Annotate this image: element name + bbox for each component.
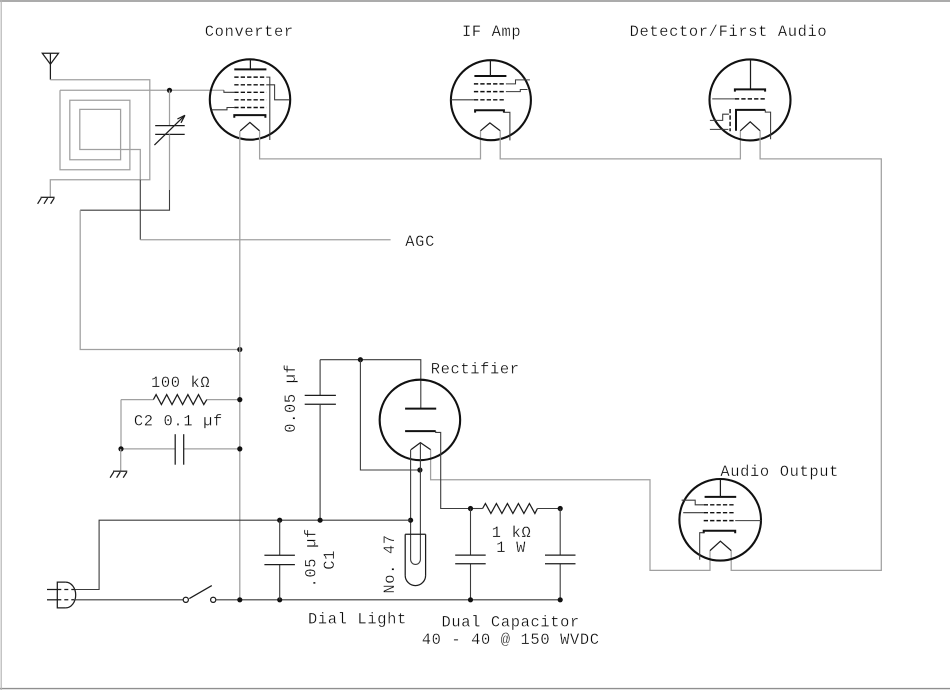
- node B- bus bottom: [237, 597, 242, 602]
- heater V2: [481, 123, 501, 131]
- capacitor C2: [175, 434, 184, 465]
- tube envelope V1: [210, 59, 290, 139]
- cathode lead right V3: [765, 110, 770, 139]
- grid 3 row V1: [234, 91, 266, 93]
- svg-text:Converter: Converter: [205, 23, 294, 41]
- grid stub 1 left V5: [682, 500, 704, 505]
- internal shield lead right V1: [266, 77, 269, 140]
- wire rectifier heater left leg / lamp filament left: [410, 450, 412, 560]
- wire rectifier plate line: [320, 360, 421, 409]
- diode stub 2 left V3: [710, 128, 729, 130]
- tube envelope V5: [679, 479, 761, 561]
- grid stub right V5: [735, 520, 761, 522]
- capacitor 0.05 uf: [305, 395, 336, 404]
- border frame bottom: [0, 688, 950, 690]
- svg-text:Dual Capacitor: Dual Capacitor: [442, 613, 580, 631]
- node R2 right: [558, 506, 563, 511]
- tube envelope V3: [710, 59, 791, 140]
- grid 5 row V1: [234, 107, 266, 109]
- tube V2 IF Amp: [451, 60, 531, 140]
- grid 2 row V5: [704, 512, 736, 514]
- variable capacitor C-tune: [154, 115, 185, 145]
- wire antenna to loop outer turn: [50, 80, 150, 197]
- border frame left: [0, 0, 2, 690]
- wire coil inner end down to AGC: [139, 180, 141, 240]
- wire B- bus (converter heater left leg down): [239, 131, 241, 600]
- resistor R1 100 kOhm: [153, 395, 206, 405]
- border frame top: [0, 0, 950, 2]
- svg-text:AGC: AGC: [405, 233, 435, 251]
- svg-text:C1: C1: [321, 550, 339, 570]
- plate lead V1: [249, 59, 251, 69]
- node C2 left: [118, 446, 123, 451]
- wire C2 ground lead: [120, 449, 122, 471]
- svg-text:Audio Output: Audio Output: [720, 463, 839, 481]
- capacitor C1 leads: [279, 520, 281, 555]
- heater V1: [240, 122, 259, 130]
- screen step 1 right V2: [506, 80, 530, 84]
- capacitor 0.05 uf bottom lead: [319, 404, 321, 520]
- plate V4: [405, 408, 436, 410]
- tube envelope V4: [380, 380, 461, 461]
- grid 1 row V1: [234, 76, 266, 78]
- wire heater chain rectifier to audio output: [431, 450, 710, 571]
- tube envelope V2: [451, 60, 531, 140]
- node coil tap junction: [167, 88, 172, 93]
- node dial lamp top left: [408, 518, 413, 523]
- wire AC line bottom: plug to switch: [74, 599, 183, 601]
- svg-text:Dial Light: Dial Light: [308, 610, 407, 628]
- dial lamp bulb outline: [405, 534, 425, 585]
- cathode V3: [736, 110, 765, 131]
- grid stub left V2: [451, 99, 474, 101]
- wire heater chain detector right down to audio output: [731, 131, 881, 571]
- ground (C2): [110, 471, 127, 478]
- svg-text:0.05 µf: 0.05 µf: [282, 364, 300, 433]
- node heater tap: [417, 467, 422, 472]
- antenna: [42, 53, 58, 79]
- grid 2 row V2: [474, 91, 506, 93]
- node C2 right on bus: [237, 446, 242, 451]
- dual capacitor section A leads: [470, 509, 472, 556]
- node dual cap A bottom: [468, 597, 473, 602]
- wire coil tap to converter grid: [60, 89, 224, 91]
- screen step right V1: [266, 85, 289, 100]
- cathode V5: [704, 531, 736, 534]
- svg-text:.05 µf: .05 µf: [303, 528, 321, 587]
- wire rectifier cathode lead to 1k resistor: [436, 431, 471, 508]
- plate lead V5: [719, 479, 721, 497]
- resistor R2 1 kOhm leads: [471, 508, 483, 510]
- capacitor 0.05 uf top lead: [319, 360, 321, 396]
- wire to AVC bus: [80, 210, 240, 349]
- node C1 bottom: [277, 597, 282, 602]
- node junction on B- bus at 349.5: [237, 347, 242, 352]
- cathode V4: [405, 430, 436, 432]
- svg-text:C2 0.1 µf: C2 0.1 µf: [134, 412, 223, 430]
- plate V1: [234, 68, 266, 70]
- svg-text:IF Amp: IF Amp: [462, 23, 521, 41]
- wire AC line top: plug to heater string: [74, 520, 410, 589]
- switch S1: [183, 586, 216, 603]
- ground (antenna loop): [38, 197, 55, 204]
- plate lead V2: [489, 60, 491, 76]
- grid 2 row V1: [234, 84, 266, 86]
- AC plug: [47, 582, 76, 608]
- node dual cap B bottom: [558, 597, 563, 602]
- svg-text:100 kΩ: 100 kΩ: [151, 374, 210, 392]
- diode plate dashed V3: [729, 109, 731, 131]
- grid 4 row V1: [234, 99, 266, 101]
- wire AGC line: [140, 239, 390, 241]
- resistor R1 100 kOhm leads: [121, 399, 153, 401]
- wire R1 left down to C2: [120, 400, 122, 449]
- node C1 top: [277, 518, 282, 523]
- grid 1 row V2: [474, 83, 506, 85]
- plate V5: [705, 496, 737, 498]
- cathode lead V5: [700, 533, 704, 560]
- svg-text:Rectifier: Rectifier: [431, 360, 520, 378]
- wire rectifier heater tap / lamp filament right: [419, 443, 421, 560]
- tube V1 Converter: [210, 59, 290, 140]
- dual capacitor section B: [545, 555, 576, 564]
- node R2 left: [468, 506, 473, 511]
- plate V3: [735, 89, 765, 91]
- wire bottom AC bus: [216, 599, 560, 601]
- grid stub 2 left V5: [683, 512, 704, 514]
- wire heater chain IF amp to detector: [500, 131, 740, 159]
- grid 3 row V5: [704, 520, 736, 522]
- grid stub step left V1: [224, 90, 234, 92]
- wire heater chain converter to IF amp: [260, 131, 481, 159]
- heater V4: [411, 443, 431, 450]
- svg-text:No. 47: No. 47: [381, 534, 399, 593]
- wire varcap bottom down-left: [169, 134, 171, 190]
- capacitor C2 leads: [121, 448, 175, 450]
- screen step 2 right V2: [506, 90, 528, 92]
- plate V2: [474, 75, 506, 77]
- svg-text:Detector/First Audio: Detector/First Audio: [630, 23, 828, 41]
- node R1 right on bus: [237, 397, 242, 402]
- tube V4 Rectifier: [380, 380, 461, 461]
- svg-text:40 - 40 @ 150 WVDC: 40 - 40 @ 150 WVDC: [422, 631, 600, 649]
- node plate line junction: [358, 357, 363, 362]
- resistor R2 1 kOhm: [483, 504, 538, 514]
- plate lead V3: [750, 59, 752, 89]
- heater V3: [740, 122, 760, 131]
- svg-text:1 W: 1 W: [496, 539, 526, 557]
- loop antenna coil L1 (square spiral): [60, 90, 140, 179]
- tube V5 Audio Output: [679, 479, 761, 561]
- cathode V2: [475, 110, 504, 112]
- grid stub left V3: [712, 98, 735, 100]
- cathode lead V2: [504, 112, 510, 140]
- grid 3 row V2: [474, 99, 506, 101]
- heater V5: [710, 541, 731, 550]
- grid 1 row V5: [704, 504, 736, 506]
- grid 5 stub left V1: [212, 108, 235, 110]
- lamp filament U bend: [411, 560, 421, 565]
- node 0.05 cap bottom: [318, 518, 323, 523]
- cathode V1: [234, 115, 265, 118]
- variable capacitor C-tune top lead: [169, 90, 171, 125]
- wire plate junction down to cathode tap: [360, 360, 420, 470]
- dual capacitor section A: [455, 555, 486, 564]
- grid row V3: [735, 98, 767, 100]
- dual capacitor section B leads: [559, 509, 561, 556]
- capacitor C1: [264, 555, 295, 564]
- diode stub 1 left V3: [710, 114, 729, 120]
- tube V3 Detector/First Audio: [710, 59, 791, 140]
